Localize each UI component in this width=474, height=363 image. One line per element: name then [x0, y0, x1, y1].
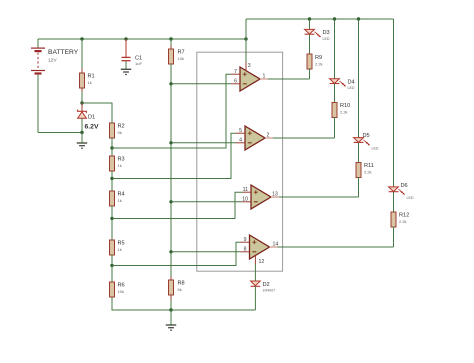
wire op2 output [273, 137, 335, 139]
diode D2 1N4007 [251, 281, 275, 310]
svg-text:4: 4 [239, 138, 242, 144]
resistor R11 2.2k [356, 142, 374, 197]
svg-text:10k: 10k [178, 56, 184, 61]
resistor R12 2.2k [391, 192, 409, 247]
op-amp U1D [241, 235, 280, 259]
svg-text:11: 11 [243, 187, 248, 193]
wire sense column R7 to R8 [170, 64, 172, 281]
resistor R3 1k [110, 148, 125, 179]
svg-text:9k: 9k [118, 130, 122, 135]
svg-text:1k: 1k [118, 163, 122, 168]
node junction rail/pin3 [244, 37, 247, 40]
node sense tap op3 [169, 200, 172, 203]
svg-text:12V: 12V [48, 57, 57, 63]
node zener reference node [80, 101, 83, 104]
svg-text:LED: LED [407, 196, 414, 200]
wire LED top rail [246, 18, 394, 20]
svg-text:R3: R3 [118, 157, 125, 163]
svg-text:LED: LED [348, 86, 355, 90]
wire sense to op3 - [171, 201, 242, 203]
svg-text:7: 7 [234, 69, 237, 75]
wire sense to op2 - [171, 142, 236, 144]
svg-text:R9: R9 [315, 55, 322, 61]
op-amp U1B [236, 126, 275, 150]
resistor R6 10k [110, 266, 125, 298]
svg-text:2.2k: 2.2k [399, 219, 407, 224]
op-amp U1A [231, 67, 270, 91]
node junction rail/R7 [169, 37, 172, 40]
capacitor C1 1uF [122, 39, 143, 69]
LED D4 [330, 19, 355, 90]
svg-text:D3: D3 [323, 30, 330, 36]
svg-text:5k: 5k [178, 287, 182, 292]
ground below D1 [77, 133, 87, 149]
svg-text:3: 3 [248, 63, 251, 69]
svg-text:9: 9 [244, 237, 247, 243]
svg-text:LED: LED [323, 37, 330, 41]
wire pin3 power [246, 19, 251, 71]
wire tap1 to op1 + [112, 74, 231, 148]
wire pin12 to D2 [255, 256, 264, 282]
resistor R2 9k [110, 123, 125, 148]
node sense tap op1 [169, 82, 172, 85]
svg-text:R5: R5 [118, 241, 125, 247]
svg-text:BATTERY: BATTERY [48, 49, 79, 56]
svg-text:R1: R1 [88, 74, 95, 80]
svg-text:2.2k: 2.2k [364, 170, 372, 175]
ground below C1 [121, 69, 131, 74]
svg-text:D6: D6 [401, 183, 408, 189]
svg-text:R12: R12 [399, 213, 409, 219]
svg-text:13: 13 [272, 192, 278, 198]
wire sense to op4 - [171, 251, 241, 253]
svg-text:D5: D5 [363, 133, 370, 139]
node ladder tap 3 [110, 217, 113, 220]
resistor R5 1k [110, 219, 125, 266]
svg-text:R6: R6 [118, 283, 125, 289]
svg-text:R8: R8 [178, 281, 185, 287]
svg-text:10k: 10k [118, 289, 124, 294]
svg-text:2.2k: 2.2k [315, 61, 323, 66]
svg-text:1k: 1k [118, 247, 122, 252]
svg-text:R11: R11 [364, 163, 374, 169]
wire sense to op1 - [171, 83, 231, 85]
wire battery negative to D1 anode [38, 132, 82, 134]
wire battery positive rail [38, 38, 246, 40]
IC boundary box LM324 [197, 52, 283, 271]
wire reference node to ladder top [82, 103, 112, 123]
battery BAT1 12V [31, 39, 79, 133]
svg-text:1N4007: 1N4007 [263, 288, 276, 292]
node junction D1 anode [80, 131, 83, 134]
svg-text:R4: R4 [118, 192, 125, 198]
svg-text:2: 2 [267, 133, 270, 139]
LED D3 [305, 19, 330, 41]
svg-text:R2: R2 [118, 124, 125, 130]
svg-text:6: 6 [234, 79, 237, 85]
resistor R7 10k [169, 39, 185, 70]
resistor R1 1k [80, 39, 95, 103]
node junction rail/D3 [308, 17, 311, 20]
svg-text:2.2k: 2.2k [340, 110, 348, 115]
wire op4 output [278, 246, 394, 248]
wire tap3 to op3 + [112, 192, 242, 218]
svg-text:6.2V: 6.2V [85, 124, 99, 131]
wire op3 output [279, 196, 359, 198]
LED D5 [354, 19, 379, 151]
node sense tap op2 [169, 141, 172, 144]
node ladder tap 1 [110, 146, 113, 149]
svg-text:10: 10 [242, 197, 248, 203]
svg-text:12: 12 [259, 259, 265, 265]
node sense tap op4 [169, 250, 172, 253]
wire tap4 to op4 + [112, 242, 241, 265]
resistor R10 2.2k [332, 84, 350, 139]
svg-text:D2: D2 [263, 282, 270, 288]
node junction rail/C1 [124, 37, 127, 40]
wire op1 output [268, 78, 310, 80]
op-amp U1C [242, 185, 281, 209]
svg-text:D1: D1 [88, 114, 95, 120]
LED D6 [389, 19, 414, 200]
svg-text:1uF: 1uF [135, 61, 142, 66]
svg-text:1k: 1k [88, 80, 92, 85]
svg-text:1: 1 [263, 74, 266, 80]
svg-text:LED: LED [372, 147, 379, 151]
zener diode D1 6.2V [78, 103, 99, 133]
svg-text:D4: D4 [348, 80, 355, 86]
node junction ground rail R8 [169, 308, 172, 311]
wire ground rail [112, 297, 255, 310]
wire tap2 to op2 + [112, 133, 236, 178]
resistor R8 5k [169, 276, 185, 310]
ground main [166, 310, 176, 330]
resistor R9 2.2k [307, 34, 323, 79]
node junction rail/D5 [357, 17, 360, 20]
resistor R4 1k [110, 179, 125, 219]
node junction rail/D4 [333, 17, 336, 20]
node ladder tap 4 [110, 264, 113, 267]
svg-text:5: 5 [239, 128, 242, 134]
svg-text:8: 8 [244, 247, 247, 253]
node junction rail/R1 [80, 37, 83, 40]
svg-text:R7: R7 [178, 50, 185, 56]
svg-text:1k: 1k [118, 198, 122, 203]
svg-text:R10: R10 [340, 103, 350, 109]
node ladder tap 2 [110, 177, 113, 180]
